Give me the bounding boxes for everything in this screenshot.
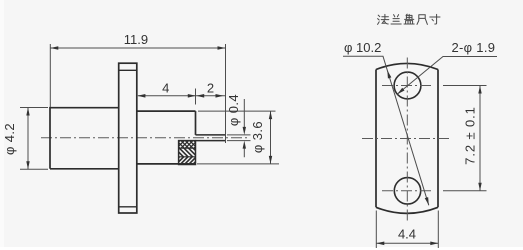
- φ10.2 leader + diameter line: [343, 56, 429, 205]
- 法: [378, 14, 389, 24]
- dim φ0.4: [227, 99, 251, 157]
- backslash band: [161, 139, 212, 167]
- 兰: [391, 15, 401, 24]
- svg-text:4: 4: [162, 80, 169, 95]
- lower hole: [394, 178, 420, 204]
- 盘: [404, 14, 414, 24]
- top arc: [376, 63, 438, 69]
- crosshatch band: [162, 130, 212, 158]
- svg-text:4.4: 4.4: [398, 227, 416, 242]
- dim 4: [138, 89, 226, 105]
- dim 11.9: [50, 44, 225, 143]
- pin φ0.4: [196, 135, 226, 141]
- upper hole: [394, 72, 421, 99]
- svg-text:φ 0.4: φ 0.4: [226, 94, 241, 126]
- dim 2: [196, 94, 223, 98]
- flange (side view): [119, 63, 137, 213]
- svg-text:φ 4.2: φ 4.2: [2, 123, 17, 155]
- svg-text:7.2 ± 0.1: 7.2 ± 0.1: [463, 106, 478, 165]
- flange bottom chamfer line: [119, 206, 137, 208]
- title 法兰盘尺寸 drawn as strokes: [378, 14, 440, 24]
- bottom arc: [376, 207, 438, 213]
- dim φ4.2: [20, 108, 48, 170]
- 尺: [417, 15, 427, 25]
- dim 7.2±0.1: [443, 86, 487, 191]
- 寸: [430, 14, 440, 24]
- dim 4.4: [376, 211, 438, 249]
- flange body outline: [376, 70, 438, 208]
- step edge: [195, 111, 197, 135]
- flange top chamfer line: [119, 69, 137, 71]
- centerlines: [362, 58, 450, 224]
- dim φ3.6: [197, 111, 279, 164]
- 2-φ1.9 leader: [397, 57, 497, 95]
- cylinder φ3.6: [137, 111, 196, 164]
- slash band: [162, 147, 215, 175]
- svg-text:φ 3.6: φ 3.6: [250, 121, 265, 153]
- centerline left view: [41, 137, 248, 139]
- svg-text:2-φ 1.9: 2-φ 1.9: [452, 40, 496, 55]
- body φ4.2 barrel: [50, 108, 119, 169]
- svg-text:φ 10.2: φ 10.2: [344, 40, 381, 55]
- svg-text:2: 2: [207, 81, 214, 96]
- svg-text:11.9: 11.9: [124, 32, 148, 47]
